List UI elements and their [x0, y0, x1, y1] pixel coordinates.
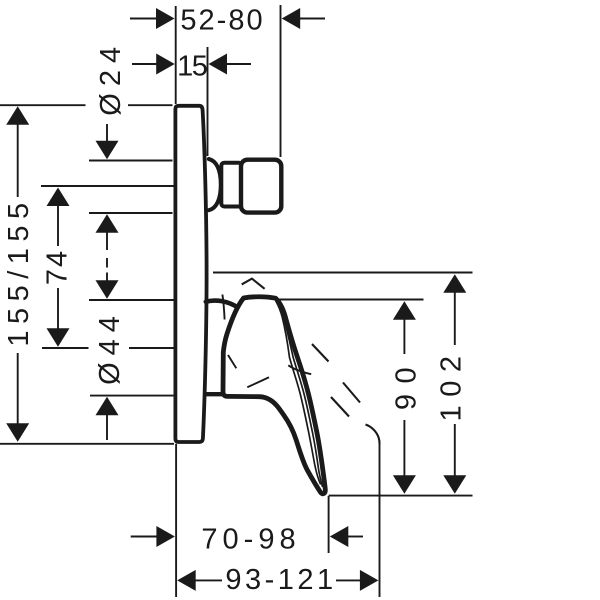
extension line handle axis (y=348) with gap behind O44 text [42, 347, 89, 349]
dimension 74 [42, 188, 74, 347]
extension line knob top (y=160.5) [89, 160, 173, 162]
extension line hub top left (y=300) [89, 299, 174, 301]
knob end cap [241, 160, 281, 213]
extension line below lever tip (x=328.6) [328, 496, 330, 553]
tick inside hub bottom [247, 377, 269, 387]
lever handle (hub + blade) [223, 297, 325, 494]
lever blade inner line 1 [277, 301, 323, 487]
extension line left of 52-80 / 15 (vertical x=175.7) [175, 6, 177, 104]
extension line knob axis (y=186) [41, 185, 174, 187]
dimension 93-121 [177, 564, 378, 596]
handle socket bottom edge [206, 392, 223, 396]
dimension 52-80 [130, 5, 325, 37]
dashed swung position line upper [312, 344, 360, 417]
svg-text:15: 15 [177, 51, 207, 83]
dimension 90 [391, 301, 423, 494]
svg-text:93-121: 93-121 [225, 564, 336, 596]
extension line hub bottom left (y=395.6) [90, 395, 174, 397]
extension line lever tip bottom (y=495.6) [329, 495, 473, 497]
dashed swung tip hook [366, 425, 380, 445]
extension line plate top level (y=105.2) with gap behind O24 text [0, 104, 86, 106]
svg-text:Ø44: Ø44 [94, 309, 126, 385]
extension line below plate left (x=176.1) [175, 444, 177, 597]
dimension 155/155 [3, 106, 35, 441]
handle socket top arc [206, 301, 239, 308]
dimension O24 [95, 40, 127, 268]
extension line right of 15 (vertical x=207.5) [207, 47, 209, 156]
dimension 70-98 [131, 524, 363, 556]
extension line knob bottom (y=213) [89, 212, 173, 214]
dimension 102 [436, 274, 468, 494]
svg-text:52-80: 52-80 [180, 5, 264, 37]
dimension 15 [132, 51, 251, 83]
tick inside hub left [228, 355, 236, 368]
caret mark above hub [242, 279, 265, 289]
extension line swung handle top (y=272.5) [213, 272, 473, 274]
thin arc crossing blade [288, 365, 311, 374]
escutcheon plate (side view) [175, 106, 206, 442]
svg-text:90: 90 [391, 357, 423, 410]
svg-text:155/155: 155/155 [3, 196, 35, 346]
knob bump against plate [209, 159, 221, 210]
motion arc tick across socket [222, 295, 224, 320]
dimension O44 [94, 273, 126, 441]
svg-text:102: 102 [436, 348, 468, 422]
knob middle cylinder [221, 163, 242, 207]
svg-text:74: 74 [42, 249, 74, 285]
extension line hub top right (y=299.5) [277, 299, 424, 301]
svg-text:Ø24: Ø24 [95, 40, 127, 116]
svg-text:70-98: 70-98 [201, 524, 300, 556]
lever blade inner line 2 [276, 301, 321, 485]
extension line right of 52-80 (vertical x=280.5) [280, 5, 282, 157]
extension line swung tip (x=379.5) [379, 441, 381, 597]
extension line plate bottom (y=443.8) [0, 443, 174, 445]
